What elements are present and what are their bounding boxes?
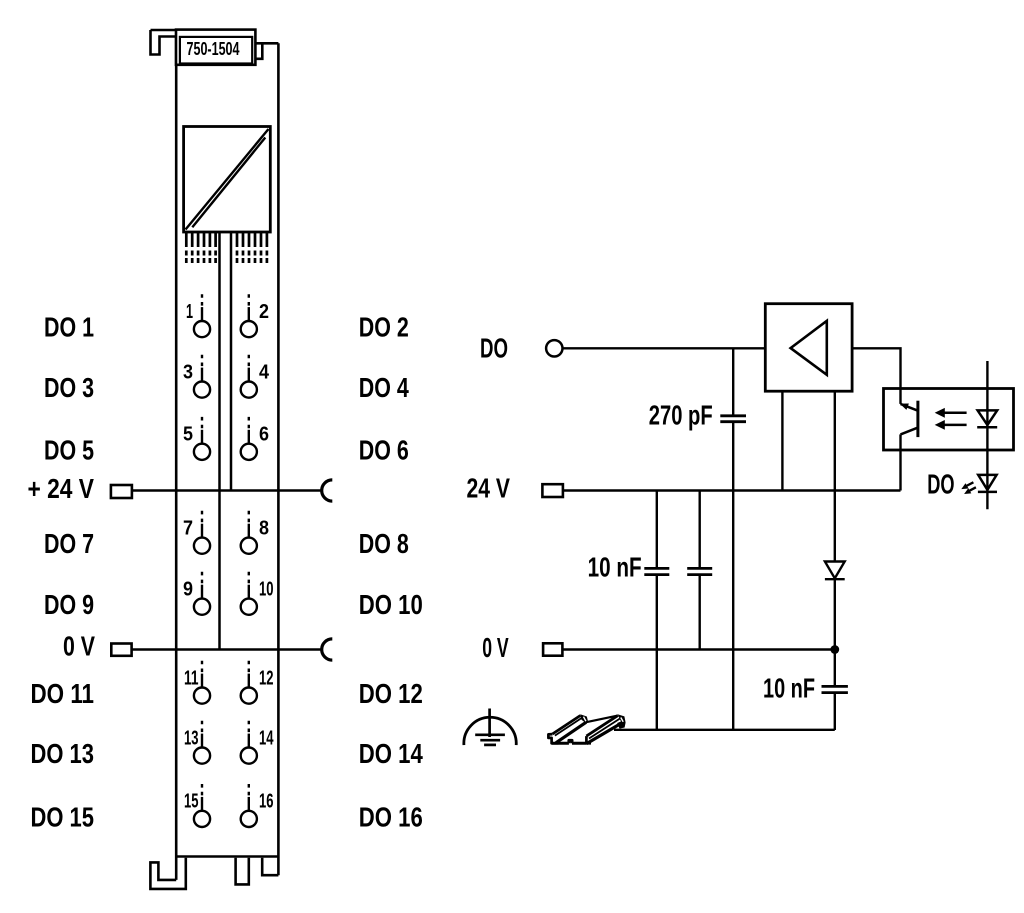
svg-text:DO 10: DO 10 — [359, 589, 423, 620]
opto LED wire — [986, 361, 988, 509]
terminal 9 — [183, 569, 210, 615]
svg-text:16: 16 — [259, 791, 274, 813]
terminal 14 — [241, 718, 274, 764]
svg-text:750-1504: 750-1504 — [187, 38, 240, 59]
wire DO input to amplifier — [563, 347, 766, 349]
capacitor 270 pF branch wire — [732, 348, 734, 730]
wire amplifier output to optocoupler — [852, 348, 900, 404]
wire amplifier leg to diode — [834, 391, 836, 561]
0V power jumper contact square — [111, 644, 131, 656]
svg-text:0 V: 0 V — [63, 631, 95, 662]
24V power jumper contact square — [111, 485, 132, 498]
terminal 1 — [186, 291, 210, 337]
24V terminal square — [542, 484, 563, 497]
light arrow 2 — [935, 420, 967, 430]
terminal 2 — [241, 291, 269, 337]
terminal 13 — [184, 718, 210, 764]
svg-text:12: 12 — [259, 667, 274, 689]
0V power jumper wire — [132, 648, 322, 651]
diode D1 — [825, 562, 845, 649]
ground rail wire — [614, 729, 835, 731]
terminal 3 — [183, 352, 210, 398]
terminal 6 — [241, 414, 269, 460]
LED flash symbol — [961, 482, 976, 494]
svg-text:DO 6: DO 6 — [359, 434, 409, 465]
svg-text:5: 5 — [183, 424, 193, 446]
svg-text:DO: DO — [927, 469, 954, 500]
label box 750-1504 — [176, 30, 255, 65]
terminal 5 — [183, 414, 210, 460]
svg-text:0 V: 0 V — [482, 632, 509, 663]
svg-text:DO 15: DO 15 — [31, 801, 95, 832]
svg-text:6: 6 — [259, 424, 269, 446]
svg-text:10: 10 — [259, 578, 274, 600]
terminal 7 — [183, 508, 210, 554]
terminal 11 — [184, 658, 210, 704]
svg-text:DO 5: DO 5 — [44, 434, 94, 465]
capacitor C2 10 nF — [687, 491, 712, 650]
svg-text:2: 2 — [259, 301, 269, 323]
terminal 8 — [241, 508, 269, 554]
svg-text:270 pF: 270 pF — [649, 399, 713, 430]
DO input terminal — [546, 340, 562, 356]
svg-text:15: 15 — [184, 791, 199, 813]
svg-text:14: 14 — [259, 727, 274, 749]
svg-text:10 nF: 10 nF — [588, 552, 642, 583]
optocoupler box — [884, 389, 1014, 451]
mounting hook top-right — [256, 43, 279, 59]
svg-text:9: 9 — [183, 578, 193, 600]
svg-text:DO 14: DO 14 — [359, 738, 423, 769]
data contact box (S-symbol) — [184, 127, 271, 233]
24V power jumper arc contact — [322, 480, 333, 501]
svg-text:7: 7 — [183, 517, 193, 539]
module body right edge — [277, 43, 280, 875]
wire amplifier leg to 24V rail — [781, 391, 783, 490]
junction node 0V/diode — [830, 645, 839, 654]
mounting hook top-left — [151, 30, 177, 55]
DIN rail symbol — [548, 714, 625, 743]
internal contact comb — [186, 233, 267, 263]
svg-text:DO 9: DO 9 — [44, 589, 94, 620]
ground symbol — [464, 709, 516, 746]
svg-text:1: 1 — [186, 301, 193, 323]
internal 0V bus line — [230, 232, 233, 491]
svg-text:DO 7: DO 7 — [44, 528, 94, 559]
0V rail wire — [562, 648, 834, 650]
0V terminal square — [543, 643, 562, 655]
24V power jumper wire — [132, 489, 322, 492]
status LED D3 — [978, 475, 997, 492]
svg-text:DO 1: DO 1 — [44, 312, 94, 343]
svg-text:DO 3: DO 3 — [44, 372, 94, 403]
0V power jumper arc contact — [322, 639, 333, 660]
bottom tab right — [262, 858, 278, 875]
module bottom edge — [176, 855, 278, 858]
svg-text:DO 13: DO 13 — [31, 738, 95, 769]
svg-text:4: 4 — [259, 361, 270, 383]
capacitor C1 10 nF — [644, 491, 669, 731]
svg-text:10 nF: 10 nF — [763, 673, 815, 704]
capacitor C3 10 nF — [822, 650, 848, 731]
bottom tab middle — [236, 858, 249, 885]
opto LED D2 — [977, 410, 997, 427]
svg-text:DO 8: DO 8 — [359, 528, 409, 559]
phototransistor Q1 — [900, 401, 918, 491]
24V rail wire — [563, 489, 901, 491]
terminal 4 — [241, 352, 270, 398]
svg-text:DO 11: DO 11 — [31, 678, 95, 709]
svg-text:DO: DO — [480, 333, 508, 364]
svg-text:DO 16: DO 16 — [359, 801, 423, 832]
svg-text:+ 24 V: + 24 V — [28, 473, 95, 504]
svg-text:DO 12: DO 12 — [359, 678, 423, 709]
terminal 15 — [184, 781, 210, 827]
svg-text:11: 11 — [184, 667, 199, 689]
terminal 16 — [241, 781, 274, 827]
svg-text:24 V: 24 V — [467, 473, 511, 504]
svg-text:DO 2: DO 2 — [359, 312, 409, 343]
svg-text:DO 4: DO 4 — [359, 372, 409, 403]
module body left edge — [175, 37, 178, 880]
terminal 10 — [241, 569, 274, 615]
svg-text:13: 13 — [184, 727, 199, 749]
svg-text:8: 8 — [259, 517, 269, 539]
svg-text:3: 3 — [183, 361, 193, 383]
terminal 12 — [241, 658, 274, 704]
release tab bottom-left — [150, 858, 185, 889]
capacitor 270 pF — [720, 416, 746, 422]
light arrow 1 — [935, 408, 967, 418]
internal 24V bus line — [218, 232, 221, 650]
module top edge — [151, 29, 177, 32]
amplifier box U1 — [765, 304, 852, 392]
